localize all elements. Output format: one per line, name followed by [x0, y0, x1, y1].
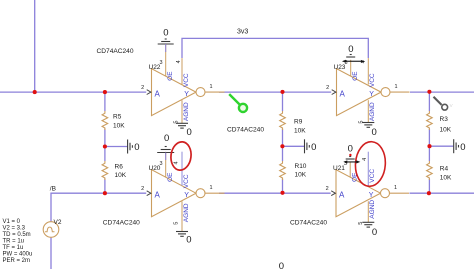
- svg-text:OE: OE: [167, 172, 174, 182]
- ground 0 below U21 AGND: [362, 222, 377, 238]
- svg-text:3: 3: [160, 161, 163, 167]
- wire node to ground: [429, 145, 453, 147]
- wire 3v3 rail: [182, 38, 368, 58]
- svg-text:TF = 1u: TF = 1u: [3, 245, 24, 251]
- wire U23.Y net right: [410, 91, 474, 93]
- junction R4 bottom: [427, 191, 431, 195]
- svg-text:10K: 10K: [113, 122, 125, 129]
- svg-text:0: 0: [187, 127, 192, 138]
- svg-text:AGND: AGND: [369, 200, 376, 219]
- wire U21.Y net right: [410, 192, 474, 194]
- wire R4 to bus: [428, 179, 430, 194]
- svg-text:CD74AC240: CD74AC240: [97, 48, 134, 55]
- wire to R4 top: [428, 146, 430, 161]
- svg-text:2: 2: [141, 85, 144, 91]
- junction R10 bottom: [280, 191, 284, 195]
- svg-text:A: A: [155, 190, 161, 199]
- ground 0 above U20 OE: [157, 133, 174, 152]
- svg-text:0: 0: [460, 142, 465, 153]
- junction R9/R10 node: [280, 144, 284, 148]
- junction input net: [33, 90, 37, 94]
- buffer U20 (CD74AC240): [141, 152, 224, 232]
- resistor R10: [280, 161, 307, 180]
- V2 source parameters: [3, 219, 33, 264]
- svg-text:R10: R10: [295, 163, 307, 170]
- wire to R3 top: [428, 92, 430, 111]
- wire to R10 top: [282, 146, 284, 161]
- annotation ellipse around U20 VCC pin: [169, 141, 192, 172]
- ground 0 above U22 OE: [158, 28, 174, 45]
- svg-text:10K: 10K: [294, 127, 306, 134]
- wire to R5 top: [104, 92, 106, 111]
- ground 0 at R3/R4 node: [454, 139, 466, 153]
- resistor R3: [427, 111, 452, 133]
- svg-text:4: 4: [173, 161, 179, 164]
- voltage source V2: [43, 219, 62, 238]
- buffer U21 (CD74AC240): [326, 152, 409, 225]
- svg-text:0: 0: [186, 235, 191, 246]
- wire node to ground: [283, 145, 305, 147]
- svg-text:Y: Y: [184, 192, 189, 199]
- svg-text:Y: Y: [369, 192, 374, 199]
- junction U21 OE ground: [349, 154, 351, 156]
- wire R9 to R10 node: [282, 129, 284, 147]
- svg-text:1: 1: [395, 84, 398, 90]
- svg-text:AGND: AGND: [369, 102, 376, 121]
- svg-text:3v3: 3v3: [237, 29, 248, 36]
- ground 0 at R5/R6 node: [128, 140, 140, 154]
- svg-text:0: 0: [311, 142, 316, 153]
- svg-text:V1 = 0: V1 = 0: [3, 219, 21, 225]
- svg-text:4: 4: [176, 60, 182, 63]
- svg-text:OE: OE: [352, 71, 359, 81]
- svg-text:0: 0: [164, 133, 169, 144]
- svg-text:R6: R6: [115, 164, 124, 171]
- wire ground stem U20 OE: [165, 153, 167, 161]
- wire to R9 top: [282, 92, 284, 111]
- svg-text:CD74AC240: CD74AC240: [227, 126, 264, 133]
- svg-text:A: A: [155, 89, 161, 98]
- ground 0 above U23 OE: [346, 44, 355, 57]
- svg-text:AGND: AGND: [183, 102, 190, 121]
- svg-text:0: 0: [372, 127, 377, 138]
- svg-text:VCC: VCC: [369, 169, 376, 183]
- resistor R4: [427, 161, 452, 181]
- svg-text:10K: 10K: [440, 126, 452, 133]
- junction R6 bottom: [103, 191, 107, 195]
- resistor R6: [102, 161, 127, 180]
- wire R5 to R6 node: [104, 129, 106, 147]
- wire node to ground: [105, 146, 127, 148]
- svg-text:3: 3: [160, 60, 163, 66]
- svg-text:R9: R9: [294, 119, 303, 126]
- ground 0 below U23 AGND: [362, 123, 376, 139]
- annotation ellipse around U21 VCC pin: [354, 141, 387, 188]
- wire U20.Y to U21.A: [219, 192, 331, 194]
- svg-text:PW = 400u: PW = 400u: [3, 252, 33, 258]
- wire U22.Y to U23.A: [219, 91, 331, 93]
- svg-text:OE: OE: [167, 71, 174, 81]
- resistor R9: [280, 111, 307, 134]
- svg-text:VCC: VCC: [369, 73, 376, 87]
- ground 0 above U21 OE: [346, 144, 355, 160]
- ground 0 below U20 AGND: [176, 232, 192, 246]
- svg-text:R3: R3: [440, 116, 449, 123]
- svg-text:V2 = 3.3: V2 = 3.3: [3, 226, 26, 232]
- svg-text:V2: V2: [54, 219, 62, 226]
- svg-text:2: 2: [326, 85, 329, 91]
- junction R3 top: [427, 90, 431, 94]
- wire R6 to /B bus: [104, 179, 106, 194]
- gray voltage probe on U23 output net: [434, 97, 453, 110]
- svg-text:CD74AC240: CD74AC240: [290, 220, 327, 227]
- svg-text:2: 2: [326, 186, 329, 192]
- wire R3 to R4 node: [428, 129, 430, 147]
- svg-text:R4: R4: [440, 166, 449, 173]
- green voltage probe on U22 output net: [229, 94, 247, 112]
- svg-text:CD74AC240: CD74AC240: [103, 220, 140, 227]
- svg-text:0: 0: [163, 28, 168, 39]
- wire to R6 top: [104, 147, 106, 162]
- svg-text:A: A: [340, 89, 346, 98]
- svg-text:2: 2: [141, 186, 144, 192]
- svg-text:10K: 10K: [295, 171, 307, 178]
- junction R5 top: [103, 90, 107, 94]
- svg-text:V: V: [450, 103, 453, 108]
- wire V2 minus: [50, 237, 52, 269]
- wire R10 to bus: [282, 179, 284, 194]
- svg-text:5: 5: [174, 222, 180, 225]
- svg-text:PER = 2m: PER = 2m: [3, 258, 31, 264]
- junction R3/R4 node: [427, 144, 431, 148]
- svg-text:Y: Y: [369, 91, 374, 98]
- svg-text:VCC: VCC: [183, 174, 190, 188]
- buffer U22 (CD74AC240): [141, 44, 224, 123]
- svg-text:10K: 10K: [115, 172, 127, 179]
- svg-text:0: 0: [372, 227, 377, 238]
- wire vertical input net: [34, 0, 36, 92]
- junction R5/R6 node: [103, 144, 107, 148]
- annotation arrow at U21 OE ground: [343, 160, 360, 163]
- svg-text:0: 0: [134, 142, 139, 153]
- svg-text:TR = 1u: TR = 1u: [3, 239, 25, 245]
- svg-text:0: 0: [348, 144, 353, 155]
- svg-text:0: 0: [279, 261, 284, 269]
- wire /B bus: [51, 193, 146, 222]
- svg-text:AGND: AGND: [183, 203, 190, 222]
- buffer U23 (CD74AC240): [326, 58, 409, 124]
- svg-text:A: A: [339, 190, 345, 199]
- svg-text:1: 1: [210, 185, 213, 191]
- svg-text:Y: Y: [184, 91, 189, 98]
- svg-text:1: 1: [394, 185, 397, 191]
- annotation arrow at U23 OE ground: [342, 60, 365, 63]
- junction R9 top: [280, 90, 284, 94]
- svg-text:VCC: VCC: [183, 73, 190, 87]
- svg-text:4: 4: [362, 158, 368, 161]
- svg-text:/B: /B: [50, 185, 56, 192]
- wire input net to U22.A: [0, 91, 146, 93]
- svg-text:TD = 0.5m: TD = 0.5m: [3, 232, 31, 238]
- svg-text:10K: 10K: [440, 174, 452, 181]
- ground 0 at R9/R10 node: [305, 139, 317, 153]
- wire ground stem U22 OE: [165, 44, 167, 52]
- resistor R5: [102, 111, 125, 130]
- svg-text:1: 1: [210, 84, 213, 90]
- ground 0 below U22 AGND: [176, 123, 192, 138]
- svg-text:0: 0: [348, 44, 353, 55]
- svg-text:R5: R5: [113, 113, 122, 120]
